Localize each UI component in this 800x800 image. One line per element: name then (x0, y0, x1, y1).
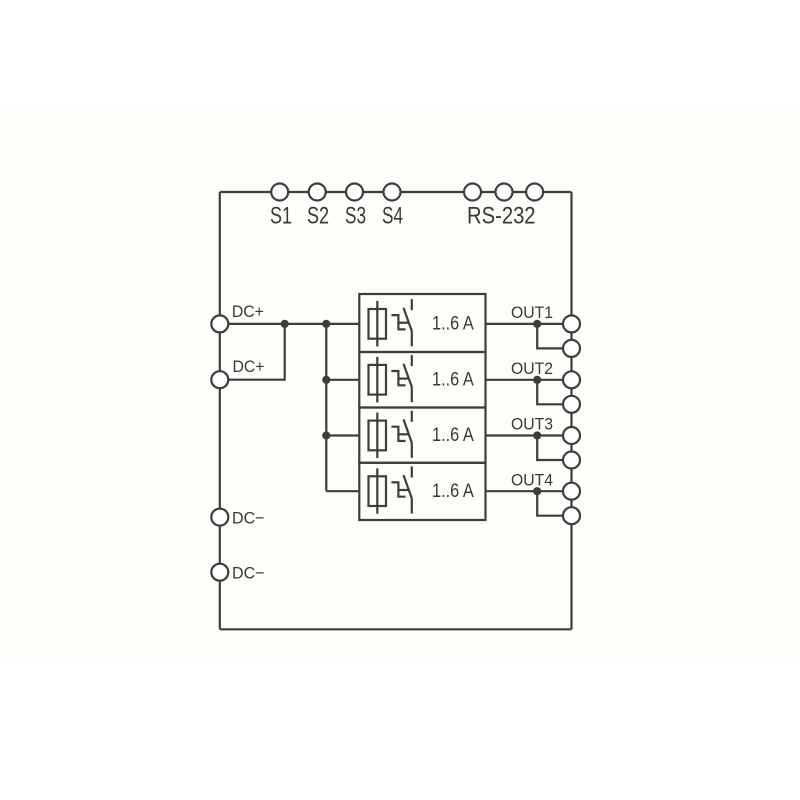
terminal RS-232 pin 2 (496, 184, 513, 201)
svg-text:S2: S2 (307, 203, 329, 230)
wire left border DC rail (219, 192, 221, 629)
node junction bus row 2 (322, 376, 330, 384)
node junction OUT2 branch (533, 376, 541, 384)
svg-text:S3: S3 (345, 203, 366, 230)
svg-text:S1: S1 (270, 203, 292, 230)
wire OUT2 second terminal branch (537, 380, 563, 405)
node junction OUT4 branch (533, 487, 541, 495)
svg-text:S4: S4 (382, 203, 403, 230)
terminal DC- 1 (211, 509, 228, 526)
terminal S1 (271, 184, 288, 201)
svg-text:DC−: DC− (232, 563, 265, 582)
terminal OUT3 b (563, 452, 580, 469)
node junction OUT3 branch (533, 431, 541, 439)
wire bus to channel 4 (326, 490, 359, 492)
wire OUT4 second terminal branch (537, 491, 563, 516)
circuit breaker channel 1: fuse F1 and contact (359, 294, 485, 352)
wire channel 2 output (486, 379, 572, 381)
terminal DC+ 1 (211, 315, 228, 332)
node junction bus row 1 (322, 320, 330, 328)
terminal RS-232 pin 3 (526, 184, 543, 201)
wire channel 3 output (486, 434, 572, 436)
svg-text:OUT4: OUT4 (511, 470, 553, 489)
terminal S2 (309, 184, 326, 201)
wire vertical distribution bus (325, 324, 327, 491)
svg-text:OUT2: OUT2 (511, 359, 553, 378)
terminal S4 (384, 184, 401, 201)
wire DC+ row 1 feed (220, 323, 359, 325)
svg-text:DC+: DC+ (233, 357, 265, 376)
terminal OUT2 b (563, 396, 580, 413)
wire channel 1 output (486, 323, 572, 325)
svg-text:1..6 A: 1..6 A (432, 481, 474, 502)
terminal DC- 2 (211, 564, 228, 581)
terminal OUT2 a (563, 371, 580, 388)
svg-text:1..6 A: 1..6 A (432, 314, 474, 335)
svg-text:OUT1: OUT1 (511, 303, 553, 322)
wire bottom return (220, 628, 572, 630)
circuit breaker channel 2: fuse F2 and contact (359, 352, 485, 408)
terminal OUT3 a (563, 427, 580, 444)
node junction DC+ branch (281, 320, 289, 328)
wire right border OUT rail (570, 192, 572, 629)
wire bus to channel 2 (326, 379, 359, 381)
wire OUT1 second terminal branch (537, 324, 563, 349)
terminal OUT4 b (563, 507, 580, 524)
svg-text:1..6 A: 1..6 A (432, 369, 474, 390)
terminal OUT4 a (563, 483, 580, 500)
svg-text:OUT3: OUT3 (511, 415, 553, 434)
wire top bus with S and RS-232 terminals (220, 191, 572, 193)
svg-text:1..6 A: 1..6 A (432, 425, 474, 446)
wire bus to channel 3 (326, 434, 359, 436)
svg-text:DC+: DC+ (232, 302, 264, 321)
terminal RS-232 pin 1 (464, 184, 481, 201)
terminal DC+ 2 (211, 371, 228, 388)
svg-text:RS-232: RS-232 (467, 203, 536, 230)
wire channel 4 output (486, 490, 572, 492)
node junction OUT1 branch (533, 320, 541, 328)
wire DC+ second terminal branch (220, 324, 285, 380)
circuit breaker channel 3: fuse F3 and contact (359, 408, 485, 463)
wire OUT3 second terminal branch (537, 436, 563, 461)
terminal OUT1 b (563, 340, 580, 357)
terminal OUT1 a (563, 315, 580, 332)
svg-text:DC−: DC− (232, 508, 265, 527)
node junction bus row 3 (322, 431, 330, 439)
circuit breaker channel 4: fuse F4 and contact (359, 463, 485, 520)
terminal S3 (346, 184, 363, 201)
